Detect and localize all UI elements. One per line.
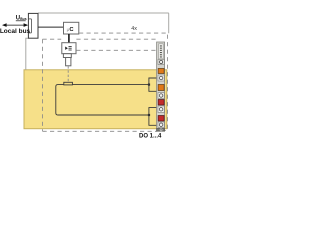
LED orange 1 — [158, 69, 164, 74]
housing outline top edge — [38, 13, 169, 33]
dashed wire: µC to outputs (4x) — [79, 33, 168, 130]
svg-text:Local bus: Local bus — [0, 28, 31, 35]
output stage box — [56, 82, 149, 115]
LED red 2 — [158, 116, 164, 122]
terminal label column — [159, 44, 164, 59]
dashed wire: power supply to terminals — [76, 49, 156, 51]
bus connector — [28, 13, 38, 38]
local bus arrow — [2, 23, 28, 27]
terminal strip — [157, 42, 165, 131]
U_Bus label — [16, 16, 27, 22]
terminal strip bottom cap — [157, 128, 165, 131]
housing outline left edge — [26, 38, 29, 70]
LED orange 2 — [158, 85, 164, 91]
wire: µC to power supply — [68, 34, 70, 43]
terminal point 1 — [158, 75, 164, 81]
dashed electronics boundary box — [43, 39, 158, 131]
svg-text:4x: 4x — [131, 26, 137, 32]
yellow field-side area — [24, 70, 167, 129]
wire bracket to terminals 3-4 — [149, 108, 158, 126]
dashed wire: plug down to output stage — [67, 66, 69, 82]
terminal point 0 — [158, 60, 164, 65]
terminal point 4 — [158, 122, 164, 128]
plug / isolation connector — [63, 54, 71, 66]
node A junction — [148, 84, 150, 86]
LED red 1 — [158, 100, 164, 106]
wire bracket to terminals 1-2 — [149, 78, 158, 91]
wire: connector to microcontroller — [38, 26, 64, 28]
power supply box — [62, 43, 76, 54]
terminal point 2 — [158, 93, 164, 99]
terminal point 3 — [158, 106, 164, 113]
svg-text:DO 1...4: DO 1...4 — [139, 134, 162, 140]
node B junction — [148, 114, 150, 116]
microcontroller box U1 (µC) — [64, 22, 79, 34]
